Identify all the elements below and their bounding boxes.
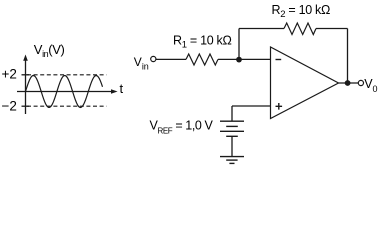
resistor R2 bbox=[284, 23, 316, 35]
svg-text:+2: +2 bbox=[2, 67, 17, 82]
dashed level -2 bbox=[27, 105, 107, 107]
y-axis arrowhead bbox=[23, 55, 28, 61]
op-amp U1 triangle bbox=[271, 47, 339, 119]
tick -2 bbox=[22, 105, 30, 107]
sine wave Vin bbox=[26, 76, 103, 108]
svg-text:Vin(V): Vin(V) bbox=[34, 42, 65, 59]
wire op-amp output bbox=[339, 82, 359, 84]
wire feedback top right bbox=[316, 28, 348, 30]
wire down to battery bbox=[231, 106, 233, 121]
junction node (inverting input) bbox=[236, 57, 242, 63]
wire feedback down to output bbox=[347, 29, 349, 84]
wire battery to ground bbox=[231, 136, 233, 156]
op-amp minus symbol bbox=[276, 59, 282, 61]
wire feedback top left bbox=[239, 28, 284, 30]
svg-text:−2: −2 bbox=[2, 99, 17, 114]
tick +2 bbox=[22, 74, 30, 76]
output terminal circle bbox=[358, 80, 363, 85]
dashed level +2 bbox=[27, 74, 107, 76]
battery plate short 2 bbox=[226, 135, 238, 137]
svg-text:t: t bbox=[120, 81, 124, 96]
wire non-inverting input bbox=[232, 105, 271, 107]
battery plate short 1 bbox=[226, 125, 238, 127]
ground symbol bbox=[220, 157, 244, 164]
wire R1 to inverting input bbox=[218, 58, 271, 60]
wire junction up to feedback bbox=[238, 29, 240, 60]
battery VREF plate long 1 bbox=[220, 120, 244, 122]
junction node (output) bbox=[345, 80, 351, 86]
resistor R1 bbox=[186, 54, 218, 65]
x-axis arrowhead bbox=[111, 89, 118, 94]
node Vin waveform graph: y-axis bbox=[25, 58, 27, 114]
x-axis (t axis) bbox=[17, 91, 114, 93]
op-amp plus symbol bbox=[276, 103, 283, 110]
wire Vin to R1 bbox=[156, 58, 186, 60]
input terminal circle bbox=[151, 56, 156, 61]
battery plate long 2 bbox=[220, 130, 244, 132]
